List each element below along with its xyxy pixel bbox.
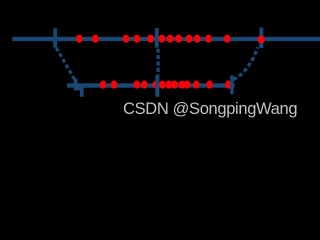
red dots: top line	[76, 35, 265, 44]
top number line	[12, 37, 320, 41]
top tick left	[53, 28, 57, 47]
bottom tick left upper bar	[74, 79, 78, 90]
dashed line: top-left tick to bottom-left tick	[56, 48, 74, 80]
bottom number line	[67, 83, 235, 87]
bottom tick left lower bar	[80, 87, 84, 97]
red dot at bottom-right tick (under tick)	[225, 81, 232, 89]
bottom tick left join strip	[74, 87, 83, 90]
bottom tick right	[230, 75, 234, 94]
red dots: bottom line	[100, 81, 213, 89]
bottom tick middle pre-dot (red dot under tick)	[153, 81, 160, 89]
dashed line: middle vertical	[157, 49, 160, 76]
top tick right	[259, 27, 263, 48]
top tick middle	[155, 28, 159, 47]
dashed line: bottom-right tick to top-right tick	[233, 47, 258, 79]
bottom tick middle	[155, 75, 159, 97]
